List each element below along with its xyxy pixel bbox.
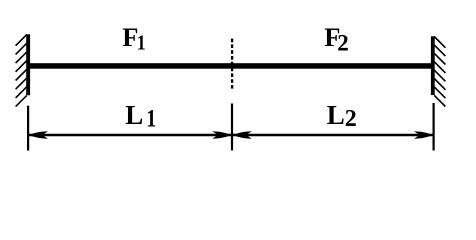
svg-text:F: F (122, 22, 138, 52)
svg-text:L: L (327, 100, 345, 130)
svg-text:2: 2 (345, 106, 357, 132)
svg-text:2: 2 (337, 30, 349, 55)
svg-text:1: 1 (146, 104, 156, 132)
svg-text:1: 1 (137, 32, 146, 55)
svg-text:L: L (125, 100, 143, 130)
